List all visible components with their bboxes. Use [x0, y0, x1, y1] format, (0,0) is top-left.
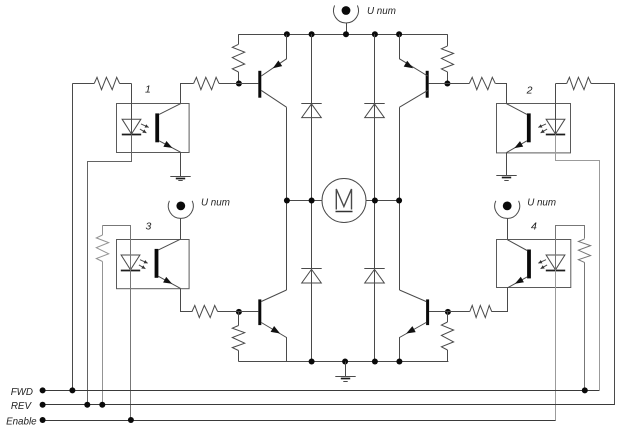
node rail-Q1 emitter — [284, 31, 290, 37]
node rail-D1 — [309, 31, 315, 37]
wire U3 LED anode from R9 — [103, 226, 131, 271]
node rail-D4 — [372, 359, 378, 365]
node rail-D3 — [309, 359, 315, 365]
wire motor left — [287, 200, 322, 202]
node Enable terminal — [40, 417, 46, 423]
diode D2 — [364, 104, 384, 118]
phototransistor U2 — [507, 104, 531, 153]
wire left inner leg — [311, 34, 313, 361]
phototransistor U1 — [155, 104, 180, 153]
wire Enable line — [43, 420, 556, 422]
wire U3 emitter to R10 — [181, 289, 193, 312]
svg-text:U num: U num — [367, 6, 396, 17]
node FWD terminal — [40, 387, 46, 393]
node rail-Q4 emitter — [396, 359, 402, 365]
wire Q2 base — [429, 83, 448, 85]
node motor-left inner — [309, 198, 315, 204]
supply terminal U num (U3) — [168, 201, 193, 239]
node REV-U1 cathode — [84, 402, 90, 408]
node motor-right outer — [396, 198, 402, 204]
phototransistor U3 — [155, 239, 181, 288]
optocoupler U1 box — [117, 104, 190, 153]
wire REV line — [43, 404, 615, 406]
wire U2 collector — [496, 84, 507, 104]
svg-text:REV: REV — [11, 401, 33, 412]
wire top positive rail — [239, 34, 448, 36]
resistor R7 — [447, 77, 495, 89]
resistor R6 — [72, 77, 131, 89]
wire U1 LED anode — [131, 84, 133, 135]
transistor Q4 (NPN bottom-right) — [400, 290, 430, 362]
wire right inner leg — [374, 34, 376, 361]
optocoupler U3 box — [117, 240, 190, 289]
node FWD-R11 riser — [582, 387, 588, 393]
wire REV riser right — [614, 84, 616, 405]
phototransistor U4 — [508, 240, 531, 288]
svg-text:4: 4 — [531, 221, 537, 233]
resistor R9 — [96, 225, 108, 404]
wire U4 LED anode from R11 — [556, 226, 585, 271]
node FWD-R6 riser — [69, 387, 75, 393]
svg-text:U num: U num — [527, 197, 556, 208]
wire U2 emitter — [506, 153, 508, 176]
svg-text:FWD: FWD — [11, 387, 33, 398]
wire Q3 base — [239, 311, 258, 313]
ground (U1) — [170, 177, 190, 181]
ground (H-bridge) — [335, 362, 355, 382]
svg-text:2: 2 — [526, 85, 533, 97]
LED U4 — [538, 255, 565, 271]
node rail-ground — [342, 359, 348, 365]
transistor Q2 (PNP top-right) — [400, 35, 429, 108]
LED U3 — [121, 255, 148, 271]
ground (U2) — [496, 176, 516, 181]
resistor R8 — [556, 77, 615, 89]
wire U4 LED cathode to Enable — [555, 270, 557, 420]
resistor R5 — [194, 77, 239, 89]
wire FWD riser left — [72, 84, 74, 391]
supply terminal U num (U4) — [495, 201, 520, 240]
diode D3 — [301, 269, 321, 284]
node Enable-U3 cathode — [128, 417, 134, 423]
wire U2 LED anode — [555, 84, 557, 135]
svg-text:U num: U num — [201, 197, 230, 208]
node rail-D2 — [372, 31, 378, 37]
node Q2 base — [444, 81, 450, 87]
motor M1 — [322, 179, 366, 223]
wire left outer leg — [286, 107, 288, 290]
resistor R12 — [448, 305, 492, 317]
diode D1 — [301, 104, 321, 118]
resistor R1 — [232, 34, 244, 83]
LED U2 — [538, 119, 565, 134]
wire U3 LED cathode to Enable — [130, 270, 132, 420]
node motor-left outer — [284, 198, 290, 204]
transistor Q3 (NPN bottom-left) — [258, 290, 286, 362]
resistor R2 — [441, 34, 453, 83]
wire motor right — [366, 200, 399, 202]
node motor-right inner — [372, 198, 378, 204]
optocoupler U4 box — [497, 240, 571, 288]
optocoupler U2 box — [497, 104, 571, 153]
wire bottom emitter rail — [239, 361, 449, 363]
wire U2 LED cathode to FWD — [556, 135, 600, 391]
wire FWD line — [43, 390, 600, 392]
resistor R3 — [232, 312, 244, 362]
supply terminal U num (top) — [334, 5, 359, 33]
node rail-Q2 emitter — [396, 31, 402, 37]
transistor Q1 (PNP top-left) — [258, 35, 286, 108]
wire U4 emitter to R12 — [492, 288, 508, 312]
wire Q1 base — [239, 83, 258, 85]
wire U1 LED cathode to REV — [88, 135, 132, 405]
LED U1 — [122, 119, 149, 134]
svg-text:1: 1 — [145, 84, 151, 96]
svg-text:3: 3 — [146, 221, 152, 233]
diode D4 — [364, 269, 384, 284]
node rail-supply — [343, 31, 349, 37]
resistor R11 — [578, 239, 590, 391]
wire U1 emitter — [180, 152, 182, 176]
node Q1 base — [236, 81, 242, 87]
wire right outer leg — [399, 107, 401, 290]
resistor R10 — [192, 305, 239, 317]
node Q3 base — [236, 309, 242, 315]
svg-text:Enable: Enable — [6, 416, 37, 427]
wire Q4 base — [429, 311, 448, 313]
node REV terminal — [40, 402, 46, 408]
wire U1 collector — [181, 84, 194, 104]
node Q4 base — [445, 309, 451, 315]
resistor R4 — [441, 312, 453, 362]
node REV-R9 riser — [99, 402, 105, 408]
